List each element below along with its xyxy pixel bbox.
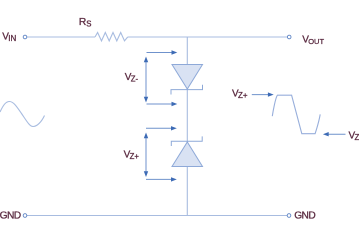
svg-text:IN: IN (8, 34, 16, 43)
svg-text:GND: GND (294, 211, 315, 222)
svg-text:GND: GND (0, 211, 21, 222)
svg-text:S: S (86, 20, 91, 29)
svg-text:OUT: OUT (308, 37, 324, 46)
svg-text:Z+: Z+ (238, 91, 248, 100)
svg-text:Z+: Z+ (130, 152, 140, 161)
svg-text:Z-: Z- (355, 133, 359, 142)
svg-text:Z-: Z- (131, 75, 139, 84)
